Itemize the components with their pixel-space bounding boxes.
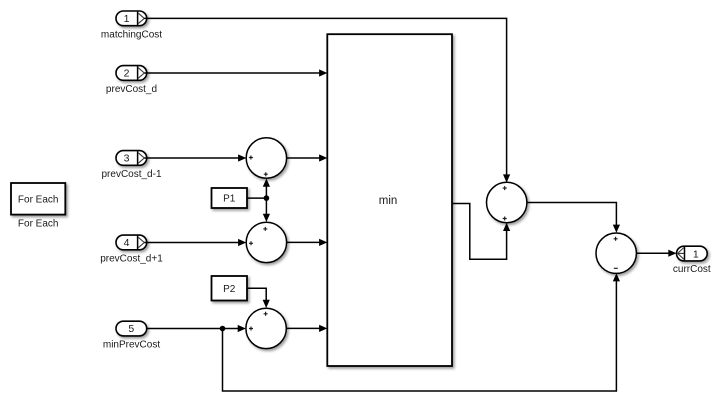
For Each block: [11, 183, 65, 215]
wire sumB to min in3: [287, 241, 321, 243]
inport 4 (prevCost_d+1): [116, 235, 147, 250]
svg-text:matchingCost: matchingCost: [101, 30, 162, 41]
wire P1 to junction: [247, 197, 266, 199]
svg-text:4: 4: [124, 237, 130, 249]
wire sumE to outport: [636, 252, 670, 254]
svg-text:2: 2: [124, 68, 130, 80]
wire P1 junction down to sumB top: [265, 198, 267, 215]
wire port5 to sumC: [146, 328, 239, 330]
wire minPrevCost branch to sumE bottom: [223, 280, 617, 392]
inport 2 (prevCost_d): [116, 66, 147, 81]
sum C (Add minPrevCost + P2): [246, 308, 286, 348]
wire min out to sumD bottom: [452, 204, 507, 260]
constant P1: [212, 188, 248, 208]
svg-text:P2: P2: [223, 284, 236, 295]
svg-text:1: 1: [124, 13, 130, 25]
wire port1 to sumD top: [145, 18, 507, 176]
wire port3 to sumA: [145, 157, 240, 159]
inport 1 (matchingCost): [116, 11, 147, 26]
wire port4 to sumB: [145, 242, 240, 244]
sum D (Add matchingCost + min): [487, 182, 527, 222]
svg-text:P1: P1: [223, 194, 236, 205]
svg-text:1: 1: [693, 248, 699, 260]
svg-text:prevCost_d+1: prevCost_d+1: [100, 254, 163, 265]
svg-text:5: 5: [128, 323, 134, 335]
junction dot P1: [264, 195, 270, 201]
sum E (Subtract minPrevCost): [596, 233, 636, 273]
wire P2 to sumC top: [247, 288, 266, 301]
outport 1 (currCost): [677, 246, 708, 261]
inport 5 (minPrevCost): [116, 321, 147, 336]
wire port2 to min in1: [145, 72, 321, 74]
constant P2: [212, 276, 248, 301]
wire sumD to sumE top: [527, 203, 617, 227]
svg-text:prevCost_d-1: prevCost_d-1: [101, 169, 161, 180]
wire sumC to min in4: [286, 327, 320, 329]
wire P1 junction up to sumA bottom: [265, 185, 267, 198]
svg-text:minPrevCost: minPrevCost: [103, 340, 160, 351]
sum A (Add prevCost_d-1 + P1): [246, 138, 286, 178]
svg-text:For Each: For Each: [18, 194, 59, 205]
svg-text:prevCost_d: prevCost_d: [106, 84, 157, 95]
sum B (Add prevCost_d+1 + P1): [246, 222, 286, 262]
svg-text:3: 3: [124, 153, 130, 165]
min block (MinMax): [327, 34, 452, 366]
junction dot minPrevCost branch: [220, 326, 226, 332]
svg-text:For Each: For Each: [18, 219, 59, 230]
svg-text:currCost: currCost: [673, 264, 711, 275]
inport 3 (prevCost_d-1): [116, 151, 147, 166]
wire sumA to min in2: [287, 157, 321, 159]
svg-text:min: min: [379, 195, 398, 207]
